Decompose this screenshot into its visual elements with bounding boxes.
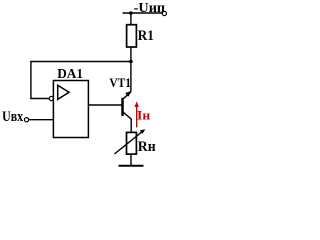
wire: collector to Rн bbox=[130, 119, 132, 133]
node: feedback junction bbox=[129, 60, 133, 64]
svg-text:DA1: DA1 bbox=[57, 67, 83, 82]
inverting input circle of DA1 bbox=[49, 96, 53, 100]
current arrow Iн (red) bbox=[135, 101, 139, 127]
wire: DA1 output to VT1 base bbox=[88, 104, 121, 106]
wire: feedback loop to inverting input bbox=[31, 62, 131, 99]
op-amp DA1 triangle symbol bbox=[58, 85, 69, 99]
transistor VT1 collector lead bbox=[123, 112, 131, 120]
wire: emitter rail up to feedback node bbox=[130, 62, 132, 92]
svg-text:-Uип: -Uип bbox=[134, 1, 165, 16]
wire: R1 bottom to feedback node bbox=[130, 47, 132, 62]
node: supply junction bbox=[129, 11, 133, 15]
resistor R1 bbox=[127, 25, 137, 47]
wire: Uвх to non-inverting input bbox=[29, 119, 54, 121]
transistor VT1 base bar bbox=[121, 98, 124, 116]
svg-text:Rн: Rн bbox=[138, 139, 156, 155]
rheostat arrow of Rн bbox=[114, 129, 145, 154]
op-amp DA1 body bbox=[53, 81, 88, 138]
terminal -Uип bbox=[162, 11, 166, 15]
wire: R1 top lead bbox=[130, 13, 132, 26]
svg-text:R1: R1 bbox=[138, 28, 154, 44]
transistor VT1 emitter lead with arrow bbox=[122, 91, 131, 100]
terminal Uвх bbox=[24, 118, 28, 122]
svg-text:Iн: Iн bbox=[137, 107, 151, 122]
resistor Rн (variable) bbox=[127, 132, 137, 154]
wire: Rн to ground bbox=[130, 154, 132, 165]
svg-text:Uвх: Uвх bbox=[2, 109, 24, 125]
wire: -Uип supply rail bbox=[123, 12, 164, 14]
ground bbox=[119, 165, 144, 167]
svg-text:VT1: VT1 bbox=[109, 75, 131, 90]
